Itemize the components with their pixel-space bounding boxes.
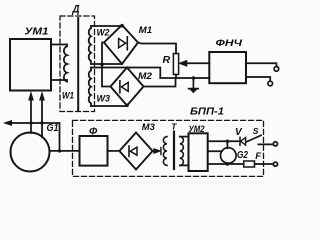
resistor R bbox=[173, 54, 178, 75]
wiper arrow to R bbox=[185, 62, 209, 64]
junction bbox=[58, 149, 61, 152]
arrow up bbox=[40, 93, 44, 100]
wire G1 to UM1 left bbox=[30, 97, 32, 133]
fuse F bbox=[244, 161, 255, 167]
wire W2 top to M1 top bbox=[91, 25, 122, 27]
terminal bbox=[274, 67, 279, 72]
wire G1 to UM1 right bbox=[41, 97, 43, 137]
junction bbox=[100, 63, 104, 67]
diode inside M3 bbox=[128, 146, 130, 156]
generator G2 bbox=[221, 148, 237, 164]
block FNC bbox=[209, 52, 246, 83]
mixer M1 bbox=[104, 25, 138, 64]
winding W1 bbox=[64, 45, 67, 82]
terminal bbox=[268, 81, 273, 86]
junction at M2 bottom bbox=[125, 104, 129, 108]
BPP-1 dashed box bbox=[73, 120, 264, 176]
T core bbox=[173, 132, 175, 169]
wire T to UM2 bottom bbox=[180, 164, 189, 166]
terminal bbox=[273, 142, 277, 146]
svg-text:W3: W3 bbox=[97, 94, 111, 105]
svg-text:БПП-1: БПП-1 bbox=[190, 106, 224, 118]
junction bbox=[226, 140, 230, 144]
svg-text:Д: Д bbox=[72, 4, 80, 16]
diode inside M1 bbox=[119, 39, 126, 48]
wire M1 left / M2 left common bbox=[102, 43, 111, 87]
wire UM1 to W1 bottom bbox=[51, 79, 67, 81]
svg-text:G1: G1 bbox=[47, 123, 59, 134]
arrow up bbox=[29, 93, 33, 100]
transformer T winding left bbox=[163, 137, 167, 166]
wire M3 to T with arrow bbox=[153, 150, 155, 152]
svg-text:Ф: Ф bbox=[89, 126, 98, 138]
wire W3 bottom to M2 bottom bbox=[91, 105, 127, 107]
svg-text:ФНЧ: ФНЧ bbox=[216, 38, 243, 49]
wire FNC out top to terminal bbox=[246, 63, 276, 66]
junction bbox=[40, 121, 43, 124]
wire FNC out bottom to terminal bbox=[246, 77, 270, 81]
wire W3 top to M2 top and to bus bbox=[91, 68, 160, 79]
wire G1 to F block bbox=[50, 150, 80, 152]
svg-text:УМ1: УМ1 bbox=[25, 26, 49, 38]
feedback wire with left arrow bbox=[10, 123, 60, 151]
svg-text:М2: М2 bbox=[138, 71, 153, 82]
wire UM1 to W1 top bbox=[51, 44, 67, 46]
wire G2 top bbox=[226, 141, 228, 148]
transformer T winding right bbox=[180, 137, 184, 166]
diode inside M2 bbox=[121, 82, 128, 91]
block UM1 bbox=[10, 39, 51, 91]
svg-text:М3: М3 bbox=[142, 122, 156, 133]
block UM2 bbox=[189, 133, 208, 171]
winding W2 bbox=[89, 26, 91, 64]
mixer M2 bbox=[111, 68, 144, 106]
svg-text:М1: М1 bbox=[139, 25, 153, 35]
wire W2 bottom to M1 bottom bbox=[91, 63, 122, 65]
switch S bbox=[246, 135, 261, 142]
svg-text:R: R bbox=[163, 54, 171, 66]
svg-text:W2: W2 bbox=[97, 28, 111, 39]
generator G1 bbox=[11, 133, 50, 172]
transformer core bbox=[77, 18, 79, 110]
wire UM2 out mid bbox=[208, 150, 222, 152]
wire M2 right up to bus bbox=[144, 78, 176, 87]
wire M1 right to R top bbox=[138, 43, 176, 54]
wire R bottom to bus bbox=[175, 75, 177, 79]
winding W3 bbox=[89, 68, 91, 107]
demodulator D dashed box bbox=[60, 16, 95, 112]
wire G2 bottom bbox=[226, 163, 228, 164]
wire UM2 out bottom bbox=[208, 163, 244, 165]
junction bbox=[226, 162, 230, 166]
block F bbox=[80, 136, 108, 166]
svg-text:Т: Т bbox=[171, 122, 177, 132]
wire F to M3 bbox=[108, 150, 120, 152]
svg-text:G2: G2 bbox=[237, 150, 248, 161]
junction at M1 top bbox=[120, 24, 124, 28]
junction bbox=[192, 76, 196, 80]
svg-text:УМ2: УМ2 bbox=[189, 124, 206, 135]
svg-text:W1: W1 bbox=[62, 91, 74, 102]
terminal bbox=[273, 162, 277, 166]
ground bbox=[189, 78, 199, 89]
mixer M3 bbox=[119, 133, 152, 170]
svg-text:S: S bbox=[253, 126, 259, 136]
wire T to UM2 top bbox=[180, 136, 189, 138]
bus wire to FNC bbox=[160, 77, 209, 79]
svg-text:F: F bbox=[255, 151, 261, 162]
wire UM2 out top bbox=[208, 140, 240, 142]
junction bbox=[29, 121, 32, 124]
diode V bbox=[241, 138, 246, 146]
